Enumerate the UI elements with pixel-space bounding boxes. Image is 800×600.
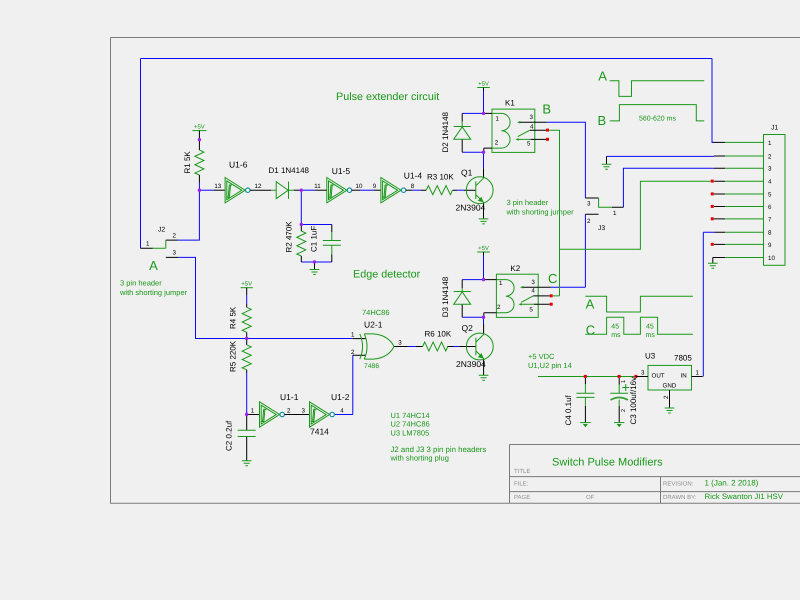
svg-text:with shorting jumper: with shorting jumper xyxy=(119,288,188,297)
capacitor C4 xyxy=(576,378,594,423)
pin numbers top row xyxy=(214,183,414,190)
svg-text:2N3904: 2N3904 xyxy=(456,359,486,369)
svg-text:3: 3 xyxy=(398,340,402,347)
svg-text:11: 11 xyxy=(314,183,321,190)
svg-text:13: 13 xyxy=(214,183,221,190)
svg-text:5: 5 xyxy=(768,191,772,198)
wire: U1-2 out to XOR pin2 xyxy=(335,355,354,414)
svg-text:5: 5 xyxy=(527,140,531,147)
wire: K1 node to D2 top xyxy=(462,112,483,114)
svg-text:FILE:: FILE: xyxy=(514,481,529,488)
svg-text:8: 8 xyxy=(411,183,415,190)
svg-text:2: 2 xyxy=(495,139,499,146)
svg-text:7486: 7486 xyxy=(364,363,379,370)
svg-text:12: 12 xyxy=(255,183,262,190)
svg-text:Switch Pulse Modifiers: Switch Pulse Modifiers xyxy=(552,456,663,468)
connector J3 xyxy=(585,198,623,214)
title block xyxy=(510,445,800,504)
wire: K2 pin2 node down to Q2 collector xyxy=(483,317,485,324)
svg-text:1: 1 xyxy=(146,241,150,248)
svg-text:J2: J2 xyxy=(158,226,165,233)
inverter U1-2 xyxy=(310,402,335,427)
svg-text:REVISION:: REVISION: xyxy=(663,481,694,488)
svg-text:7414: 7414 xyxy=(310,427,329,437)
svg-text:A: A xyxy=(149,258,158,273)
wire: K1 pin3 to J3 pin3 xyxy=(547,122,586,198)
svg-text:560-620 ms: 560-620 ms xyxy=(639,116,676,123)
wire: R5 bottom to U1-1 node xyxy=(246,373,248,415)
svg-text:with shorting plug: with shorting plug xyxy=(390,453,449,462)
inverter U1-5 xyxy=(315,178,360,203)
regulator U3 7805 xyxy=(636,365,703,408)
svg-text:7: 7 xyxy=(768,216,772,223)
wire: XOR out blue segment xyxy=(408,346,416,348)
ground (C2) xyxy=(242,461,252,466)
svg-text:2: 2 xyxy=(287,407,291,414)
svg-text:+5 VDC: +5 VDC xyxy=(528,352,555,361)
ground (Q2 emitter) xyxy=(479,375,489,380)
svg-text:R3 10K: R3 10K xyxy=(427,173,454,182)
svg-text:2N3904: 2N3904 xyxy=(456,202,486,212)
svg-text:D2 1N4148: D2 1N4148 xyxy=(441,111,450,152)
wire: R1 junction to U1-6 input xyxy=(199,189,214,191)
diode D1 xyxy=(271,182,301,199)
svg-text:ms: ms xyxy=(611,332,621,339)
svg-text:U2-1: U2-1 xyxy=(364,320,383,330)
svg-text:5: 5 xyxy=(529,307,533,314)
+5 VDC rail xyxy=(538,376,636,378)
svg-text:ms: ms xyxy=(646,332,656,339)
wire: R6 to Q2 base blue segment xyxy=(454,346,460,348)
svg-text:+5V: +5V xyxy=(478,245,489,252)
svg-text:4: 4 xyxy=(530,123,534,130)
svg-text:B: B xyxy=(597,113,606,128)
xor gate U2-1 xyxy=(353,334,408,359)
wire: K2 node to D3 top xyxy=(462,279,483,281)
svg-text:45: 45 xyxy=(646,323,654,330)
resistor R5 xyxy=(242,339,251,374)
svg-text:6: 6 xyxy=(768,204,772,211)
svg-text:C3 100uf/16v: C3 100uf/16v xyxy=(629,377,638,425)
svg-text:10: 10 xyxy=(356,183,363,190)
resistor R1 xyxy=(195,150,204,175)
wire: K1 pin2 node down to Q1 collector xyxy=(483,152,485,168)
waveform B xyxy=(610,105,705,121)
labels 45 ms xyxy=(611,323,655,339)
svg-text:Rick Swanton JI1 HSV: Rick Swanton JI1 HSV xyxy=(705,492,784,501)
wire: R2 node to C1 top xyxy=(301,224,332,226)
svg-text:Edge detector: Edge detector xyxy=(353,269,421,281)
wire: D1 junction down to R2/C1 node xyxy=(300,190,302,224)
svg-text:+5V: +5V xyxy=(194,123,205,130)
wire: D3 bottom to K2 pin2 node xyxy=(462,316,483,318)
waveform C xyxy=(585,317,693,334)
svg-text:R1 5K: R1 5K xyxy=(183,151,192,174)
connector J2 xyxy=(140,240,178,257)
+5V symbol (R1) xyxy=(192,131,206,150)
resistor R4 xyxy=(242,304,251,339)
wire: +5V to K2 node xyxy=(483,256,485,280)
wire: D1 output junction to U1-5 xyxy=(301,189,315,191)
wire: J1 pin2 to ground xyxy=(607,155,715,157)
junction dots xyxy=(198,112,486,416)
svg-text:7805: 7805 xyxy=(674,354,692,363)
svg-text:3 pin header: 3 pin header xyxy=(507,198,549,207)
ground (R2/C1) xyxy=(310,262,320,275)
svg-text:4: 4 xyxy=(768,179,772,186)
ground (C4) xyxy=(580,423,590,428)
connector J1 xyxy=(711,135,785,266)
svg-text:9: 9 xyxy=(373,183,377,190)
relay K1 xyxy=(484,109,550,152)
svg-text:C: C xyxy=(586,323,595,338)
svg-text:OF: OF xyxy=(586,494,595,501)
wire: +5V R4 segment xyxy=(246,295,248,304)
ground (C3) xyxy=(614,423,624,428)
wire: J2 pin3 down and edge-detector input row xyxy=(178,257,353,338)
+5V symbol (K1) xyxy=(477,88,490,92)
resistor R1 bottom lead xyxy=(198,175,200,183)
svg-text:C1 1uF: C1 1uF xyxy=(310,226,319,252)
svg-text:3: 3 xyxy=(531,279,535,286)
svg-text:R5 220K: R5 220K xyxy=(229,340,238,372)
wire: R2/C1 bottom node xyxy=(301,261,332,263)
svg-text:A: A xyxy=(598,68,607,83)
svg-text:3: 3 xyxy=(768,166,772,173)
+5V symbol (K2) xyxy=(477,252,490,256)
svg-text:3: 3 xyxy=(301,407,305,414)
svg-text:2: 2 xyxy=(768,153,772,160)
wire: J2 pin2 up to R1 junction xyxy=(178,190,200,240)
svg-text:1: 1 xyxy=(251,407,255,414)
ground (U3) xyxy=(665,408,675,413)
wire: D2 bottom to K1 pin2 node xyxy=(462,151,483,153)
inverter U1-1 xyxy=(247,402,310,427)
svg-text:U3: U3 xyxy=(645,351,656,360)
svg-text:3: 3 xyxy=(530,114,534,121)
wire: top rail from +5V K1 area, main loop xyxy=(141,59,715,249)
svg-text:3: 3 xyxy=(587,201,591,208)
svg-text:1: 1 xyxy=(496,115,500,122)
svg-text:U1-6: U1-6 xyxy=(229,160,248,170)
svg-text:9: 9 xyxy=(768,242,772,249)
wire: +5V to K1 node xyxy=(483,91,485,113)
svg-text:3 pin header: 3 pin header xyxy=(120,279,162,288)
svg-text:2: 2 xyxy=(173,232,177,239)
svg-text:with shorting jumper: with shorting jumper xyxy=(506,207,575,216)
ground (J1 pin2) xyxy=(602,156,612,169)
svg-text:U3 LM7805: U3 LM7805 xyxy=(391,428,430,437)
capacitor C3 electrolytic xyxy=(610,378,629,423)
wire: J3 pin2 down to K2 pin3 xyxy=(551,214,586,287)
svg-text:J1: J1 xyxy=(771,125,778,132)
svg-text:U1,U2 pin 14: U1,U2 pin 14 xyxy=(528,361,572,370)
svg-text:U1-1: U1-1 xyxy=(280,392,299,402)
svg-text:D1 1N4148: D1 1N4148 xyxy=(269,166,310,175)
ground (J1 pin10) xyxy=(708,258,718,269)
capacitor C2 xyxy=(238,415,256,461)
wire: R3 to Q1 base xyxy=(457,189,464,191)
svg-text:U1-5: U1-5 xyxy=(332,166,351,176)
svg-text:R2 470K: R2 470K xyxy=(285,221,294,253)
svg-text:B: B xyxy=(542,101,551,116)
svg-text:2: 2 xyxy=(587,218,591,225)
svg-text:1: 1 xyxy=(613,210,617,217)
svg-text:R6 10K: R6 10K xyxy=(425,330,452,339)
inverter U1-4 xyxy=(374,178,412,203)
svg-text:GND: GND xyxy=(663,383,677,390)
svg-text:Q1: Q1 xyxy=(461,168,473,178)
svg-text:R4 5K: R4 5K xyxy=(229,306,238,329)
svg-text:C4 0.1uf: C4 0.1uf xyxy=(564,394,573,425)
svg-text:K1: K1 xyxy=(505,99,515,108)
svg-text:1: 1 xyxy=(768,140,772,147)
svg-text:3: 3 xyxy=(173,249,177,256)
wire: U1-4 out to R3 xyxy=(412,189,421,191)
svg-text:TITLE: TITLE xyxy=(514,468,530,475)
svg-text:Pulse extender circuit: Pulse extender circuit xyxy=(336,91,439,103)
svg-text:U1-2: U1-2 xyxy=(331,392,350,402)
svg-text:1: 1 xyxy=(499,280,503,287)
label J3 + pins xyxy=(587,201,617,226)
svg-text:45: 45 xyxy=(611,323,619,330)
svg-text:PAGE: PAGE xyxy=(514,494,530,501)
waveform A (pulse extender) xyxy=(610,81,705,97)
wire: J1 pin1 stub blue xyxy=(712,141,714,143)
svg-text:DRAWN BY:: DRAWN BY: xyxy=(663,494,697,501)
svg-text:J3: J3 xyxy=(598,225,605,232)
svg-text:2: 2 xyxy=(497,304,501,311)
+5V symbol (R4) xyxy=(241,288,253,295)
svg-text:Q2: Q2 xyxy=(462,323,474,333)
svg-text:2: 2 xyxy=(351,349,355,356)
inverter U1-6 xyxy=(214,178,271,203)
svg-text:K2: K2 xyxy=(510,264,520,273)
svg-text:C2 0.2uf: C2 0.2uf xyxy=(225,420,234,451)
svg-text:4: 4 xyxy=(531,287,535,294)
wire: J3 pin1 up to J1 pin3 xyxy=(623,168,714,207)
svg-text:A: A xyxy=(586,296,595,311)
svg-text:1: 1 xyxy=(696,370,700,377)
relay K2 xyxy=(484,274,553,317)
resistor R3 xyxy=(421,186,457,195)
transistor Q1 xyxy=(464,168,493,219)
diode D2 xyxy=(454,113,471,152)
svg-text:74HC86: 74HC86 xyxy=(362,308,390,317)
svg-text:C: C xyxy=(548,271,557,286)
ground (Q1 emitter) xyxy=(479,219,489,224)
transistor Q2 xyxy=(459,324,493,375)
svg-text:+5V: +5V xyxy=(241,281,252,288)
waveform A (edge detector) xyxy=(585,296,693,312)
svg-text:2: 2 xyxy=(663,395,670,399)
sheet frame xyxy=(111,38,800,504)
svg-text:U2 74HC86: U2 74HC86 xyxy=(391,419,430,428)
svg-text:2: 2 xyxy=(621,409,627,412)
svg-text:IN: IN xyxy=(681,372,687,379)
svg-text:1: 1 xyxy=(621,380,627,383)
svg-text:D3 1N4148: D3 1N4148 xyxy=(441,276,450,317)
svg-text:3: 3 xyxy=(641,370,645,377)
wire: R1 bottom blue segment xyxy=(198,183,200,191)
svg-text:1: 1 xyxy=(351,332,355,339)
svg-text:10: 10 xyxy=(768,255,775,262)
wire: J1 pin8 down to U3 IN xyxy=(703,232,714,376)
svg-text:4: 4 xyxy=(340,407,344,414)
svg-text:+5V: +5V xyxy=(478,80,489,87)
diode D3 xyxy=(454,280,471,318)
svg-text:OUT: OUT xyxy=(652,372,665,379)
green net: K1 pin4 to K2 pin4 and J1 pin4 xyxy=(549,130,711,296)
capacitor C1 xyxy=(323,225,341,263)
wire: U1-5 out to U1-4 in xyxy=(360,189,374,191)
svg-text:1 (Jan. 2 2018): 1 (Jan. 2 2018) xyxy=(705,479,759,488)
resistor R6 xyxy=(416,342,454,351)
resistor R2 xyxy=(297,225,306,263)
svg-text:U1-4: U1-4 xyxy=(404,171,423,181)
svg-text:8: 8 xyxy=(768,230,772,237)
